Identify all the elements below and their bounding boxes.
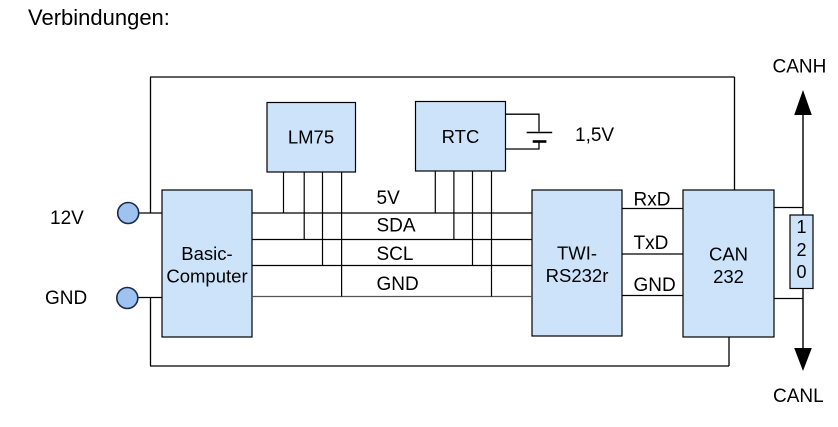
battery BT1 plus plate <box>527 132 553 134</box>
net SDA bus <box>252 239 532 241</box>
wire top frame <box>150 76 735 78</box>
wire 12V terminal to Basic-Computer <box>138 212 162 214</box>
block Basic-Computer <box>162 190 252 337</box>
svg-text:CANH: CANH <box>773 57 827 78</box>
svg-text:12V: 12V <box>50 208 84 229</box>
resistor 120 (CAN bus termination) <box>790 215 813 289</box>
wire RxD TWI-RS232r to CAN 232 <box>622 208 683 210</box>
wire RTC pin 1 to 5V <box>434 171 436 213</box>
wire frame left lower segment <box>150 298 152 367</box>
wire RTC pin 3 to SCL <box>472 171 474 266</box>
svg-text:SDA: SDA <box>377 216 416 237</box>
wire battery minus to RTC <box>506 143 540 150</box>
wire GND terminal to Basic-Computer <box>137 297 162 299</box>
svg-text:5V: 5V <box>377 188 401 209</box>
block LM75 <box>267 103 356 173</box>
wire LM75 pin 2 to SDA <box>303 172 305 240</box>
arrow CANH <box>794 90 812 115</box>
wire LM75 pin 1 to 5V <box>283 172 285 213</box>
block TWI-RS232r <box>532 190 622 336</box>
net SCL bus <box>252 265 532 267</box>
svg-text:2: 2 <box>796 240 806 260</box>
svg-text:GND: GND <box>377 274 419 295</box>
wire TxD TWI-RS232r to CAN 232 <box>622 253 683 255</box>
svg-text:GND: GND <box>634 275 676 296</box>
wire RTC pin 2 to SDA <box>453 171 455 240</box>
svg-text:RS232r: RS232r <box>546 265 609 286</box>
block RTC <box>416 102 506 172</box>
svg-text:1: 1 <box>796 217 806 237</box>
svg-text:Basic-: Basic- <box>181 243 232 264</box>
block CAN 232 <box>683 190 774 337</box>
svg-text:TxD: TxD <box>634 233 669 254</box>
svg-text:CANL: CANL <box>773 386 824 407</box>
svg-text:RxD: RxD <box>634 190 671 211</box>
wire CAN 232 bottom stub <box>728 337 730 366</box>
wire frame right stub down to CAN 232 top <box>734 77 736 190</box>
svg-text:SCL: SCL <box>377 244 414 265</box>
wire GND TWI-RS232r to CAN 232 <box>622 295 683 297</box>
wire CAN 232 to CAN bus upper <box>774 207 803 209</box>
arrow CANL <box>794 348 812 371</box>
wire CANH vertical <box>802 114 804 215</box>
wire RTC to battery plus <box>506 114 540 131</box>
terminal 12V <box>118 203 139 224</box>
wire CANL vertical <box>802 289 804 351</box>
battery BT1 minus plate <box>533 140 547 143</box>
wire LM75 pin 4 to GND <box>341 172 343 297</box>
wire bottom frame <box>150 365 729 367</box>
terminal GND <box>117 288 138 309</box>
svg-text:Computer: Computer <box>166 266 247 287</box>
svg-text:GND: GND <box>45 288 87 309</box>
wire RTC pin 4 to GND <box>491 171 493 297</box>
svg-text:232: 232 <box>713 266 744 287</box>
svg-text:RTC: RTC <box>442 126 480 147</box>
svg-text:1,5V: 1,5V <box>575 125 614 146</box>
svg-text:LM75: LM75 <box>288 127 334 148</box>
net 5V bus <box>252 212 532 214</box>
net GND bus <box>252 296 532 298</box>
svg-text:Verbindungen:: Verbindungen: <box>28 5 170 30</box>
svg-text:TWI-: TWI- <box>557 243 597 264</box>
svg-text:CAN: CAN <box>709 244 748 265</box>
svg-text:0: 0 <box>796 262 806 282</box>
wire LM75 pin 3 to SCL <box>322 172 324 266</box>
wire CAN 232 to CAN bus lower <box>774 298 803 300</box>
wire frame left upper segment <box>150 77 152 213</box>
